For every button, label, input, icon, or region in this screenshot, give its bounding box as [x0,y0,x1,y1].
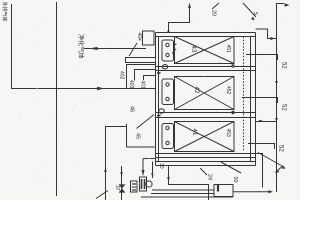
svg-text:43: 43 [190,46,197,53]
svg-text:402: 402 [119,71,125,80]
svg-text:52: 52 [281,62,287,69]
svg-text:52: 52 [278,145,284,152]
svg-text:46: 46 [129,106,135,112]
svg-text:外排气体: 外排气体 [1,2,8,22]
svg-text:42: 42 [193,87,200,94]
svg-text:451: 451 [225,45,231,54]
svg-text:403: 403 [128,80,134,89]
svg-text:30: 30 [158,163,164,169]
svg-text:52: 52 [281,104,287,111]
svg-text:45: 45 [135,133,141,139]
svg-text:24: 24 [207,174,213,180]
svg-text:401: 401 [140,81,146,90]
svg-text:50: 50 [232,177,238,183]
svg-text:404: 404 [136,33,142,42]
svg-text:452: 452 [225,86,231,95]
svg-text:453: 453 [225,129,231,138]
svg-text:41: 41 [191,129,198,136]
svg-text:净化气体: 净化气体 [77,34,85,60]
svg-text:20: 20 [211,10,217,16]
svg-text:5: 5 [252,12,258,15]
svg-text:37: 37 [114,185,120,191]
